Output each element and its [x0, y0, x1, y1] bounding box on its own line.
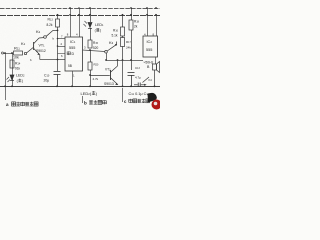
svg-text:91k: 91k [15, 67, 21, 71]
speaker B [153, 62, 160, 88]
wire node y59.5 [40, 59, 65, 61]
svg-text:5.1k: 5.1k [112, 34, 118, 38]
svg-text:VT1: VT1 [39, 44, 46, 48]
wire stub pin7 [58, 38, 66, 40]
svg-text:24k: 24k [126, 46, 131, 50]
switch K1 [24, 48, 33, 55]
svg-text:C11 0.1μ C12: C11 0.1μ C12 [129, 92, 150, 96]
svg-text:520: 520 [93, 46, 99, 50]
capacitor C10 20u [54, 60, 61, 87]
svg-text:LED2: LED2 [16, 74, 25, 78]
node input terminal [2, 52, 14, 100]
svg-text:K3: K3 [109, 40, 114, 45]
svg-text:R14: R14 [15, 62, 21, 66]
svg-text:IC2: IC2 [147, 40, 153, 44]
wire branch x12 down [12, 53, 14, 86]
svg-text:5B: 5B [68, 64, 72, 68]
svg-text:10k: 10k [13, 56, 19, 60]
resistor R15 [88, 40, 92, 48]
resistor R16 5.1k [121, 15, 125, 38]
switch K3 [105, 42, 117, 61]
svg-text:R11: R11 [14, 46, 20, 51]
svg-text:4.7μ: 4.7μ [135, 76, 141, 80]
transistor VT2 [90, 60, 118, 85]
svg-text:LED2(: LED2( [81, 91, 92, 96]
wire node y60 [106, 60, 143, 62]
switch K4 blade [143, 77, 150, 83]
capacitor C13 [128, 73, 135, 87]
svg-text:2k: 2k [134, 25, 138, 29]
svg-text:4.7k: 4.7k [93, 77, 99, 81]
resistor R11 horizontal [14, 51, 23, 55]
resistor R18 2k right column [129, 8, 133, 70]
resistor R14 vertical [10, 60, 14, 68]
capacitor C14 on rail [134, 83, 147, 88]
wire pin3 [83, 50, 105, 52]
svg-text:K1: K1 [21, 41, 26, 46]
svg-text:R13: R13 [48, 18, 54, 22]
svg-text:S9013: S9013 [104, 82, 114, 86]
svg-text:555: 555 [69, 46, 75, 50]
svg-text:R16: R16 [113, 29, 119, 33]
svg-text:LED1: LED1 [95, 23, 104, 27]
caption leader b [82, 96, 84, 103]
svg-text:b: b [84, 101, 87, 106]
svg-text:555: 555 [146, 48, 152, 52]
svg-text:C10: C10 [44, 74, 50, 78]
wire stub pin6 [58, 53, 66, 55]
resistor R17 24k [121, 38, 125, 87]
svg-text:≈50Hz: ≈50Hz [144, 61, 154, 65]
wire left drop to caption a [5, 53, 7, 100]
pin wires IC1 [71, 8, 80, 86]
svg-text:IC1: IC1 [70, 40, 76, 44]
wire stub pin2 [58, 46, 66, 48]
svg-text:R15: R15 [93, 41, 99, 45]
IC2 555 box [143, 36, 158, 57]
svg-text:S9012: S9012 [36, 49, 46, 53]
resistor R20 below pin3 [88, 50, 92, 86]
LED1 green [84, 8, 93, 40]
resistor R13 8.2k [56, 15, 60, 60]
pin wires IC2 [148, 8, 157, 64]
LED2 red [7, 75, 15, 82]
svg-text:): ) [22, 79, 23, 83]
svg-text:VT2: VT2 [105, 68, 111, 72]
junction dots left [4, 52, 13, 87]
transistor VT1 [34, 38, 44, 60]
svg-text:8.2k: 8.2k [47, 23, 53, 27]
watermark logo corner [148, 93, 162, 110]
wire top rail B [0, 15, 160, 17]
wire top rail A [0, 8, 160, 10]
IC1 555 box [65, 37, 83, 71]
svg-text:): ) [100, 29, 101, 33]
svg-text:20μ: 20μ [44, 79, 50, 83]
svg-text:K2: K2 [36, 29, 41, 34]
wire bottom rail [0, 86, 160, 88]
svg-text:R18: R18 [134, 20, 140, 24]
switch K2 [44, 30, 58, 38]
caption leader c [122, 88, 124, 102]
svg-text:D: D [72, 52, 75, 56]
wire input [4, 53, 14, 55]
